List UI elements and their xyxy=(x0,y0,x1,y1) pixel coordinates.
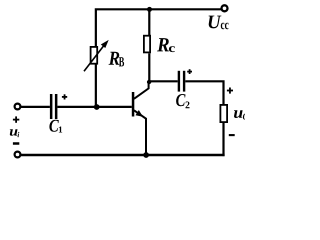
wire bottom rail xyxy=(21,154,225,156)
node: base / RB junction xyxy=(94,104,100,110)
terminal input bottom xyxy=(15,152,21,158)
label Rc xyxy=(157,38,175,52)
wire Rc top lead xyxy=(148,9,150,35)
label C1 plus xyxy=(62,94,67,99)
label ui xyxy=(10,129,19,137)
transistor collector lead xyxy=(134,83,149,99)
node: collector / Rc / C2 junction xyxy=(147,80,151,84)
capacitor C2 xyxy=(178,71,186,92)
label C1 xyxy=(49,120,62,133)
resistor RB (variable) xyxy=(84,40,109,71)
node: emitter / bottom rail junction xyxy=(143,152,149,158)
label output plus xyxy=(227,88,233,94)
terminal Ucc xyxy=(222,5,228,11)
label input plus xyxy=(13,116,19,122)
label uo xyxy=(234,110,247,119)
wire C2 to output branch xyxy=(185,81,223,105)
label C2 xyxy=(176,94,189,108)
transistor emitter lead with arrow xyxy=(134,110,146,155)
label output minus xyxy=(229,134,235,136)
wire input to C1 xyxy=(21,106,50,108)
wire Rc bottom lead xyxy=(148,53,150,82)
label input minus xyxy=(13,142,19,145)
wire C1 to base xyxy=(57,106,131,108)
label Ucc xyxy=(209,16,229,30)
wire RB bottom lead xyxy=(95,64,97,107)
resistor Rc xyxy=(144,36,150,53)
capacitor C1 xyxy=(50,94,58,119)
resistor RL (load) xyxy=(220,105,227,122)
wire top supply rail xyxy=(96,9,221,46)
transistor Q (base bar) xyxy=(132,92,135,117)
node: top rail / Rc junction xyxy=(147,7,152,12)
wire collector node to C2 xyxy=(149,80,178,82)
label RB xyxy=(109,52,125,67)
terminal input top xyxy=(15,104,21,110)
wire load to bottom rail xyxy=(222,123,224,156)
label C2 plus xyxy=(187,69,192,74)
